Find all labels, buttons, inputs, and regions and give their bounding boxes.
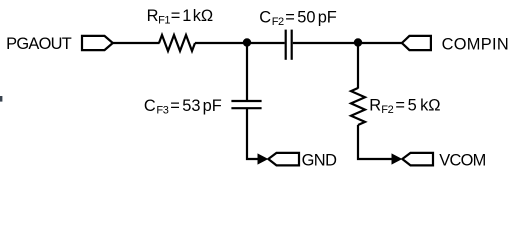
svg-text:1: 1 bbox=[182, 7, 191, 25]
svg-text:C: C bbox=[144, 97, 156, 115]
label R_F1 = 1 kOhm bbox=[147, 7, 214, 27]
svg-text:5: 5 bbox=[408, 97, 417, 115]
svg-text:kΩ: kΩ bbox=[420, 97, 440, 115]
wire R_F1 to C_F2 bbox=[195, 42, 285, 44]
svg-text:=: = bbox=[170, 97, 180, 115]
svg-text:COMPIN: COMPIN bbox=[442, 36, 509, 54]
svg-text:F2: F2 bbox=[381, 104, 393, 116]
wire C_F3 to GND corner bbox=[247, 109, 258, 159]
svg-text:=: = bbox=[395, 97, 405, 115]
label R_F2 = 5 kOhm bbox=[369, 97, 440, 117]
terminal COMPIN bbox=[402, 36, 431, 50]
arrow into GND bbox=[258, 153, 269, 164]
svg-text:R: R bbox=[369, 97, 381, 115]
capacitor C_F2 bbox=[286, 30, 292, 60]
node A junction dot bbox=[243, 38, 251, 46]
svg-text:50: 50 bbox=[297, 9, 315, 27]
svg-text:F2: F2 bbox=[272, 16, 284, 28]
svg-text:PGAOUT: PGAOUT bbox=[6, 35, 72, 53]
capacitor C_F3 bbox=[231, 101, 261, 108]
svg-text:53: 53 bbox=[182, 97, 200, 115]
terminal VCOM bbox=[402, 153, 433, 166]
svg-text:pF: pF bbox=[203, 97, 222, 115]
svg-text:F3: F3 bbox=[156, 105, 168, 117]
arrow into VCOM bbox=[392, 153, 403, 164]
left-edge tick artifact bbox=[0, 96, 2, 102]
terminal PGAOUT bbox=[82, 36, 113, 50]
wire PGAOUT to R_F1 bbox=[113, 42, 160, 44]
svg-text:GND: GND bbox=[302, 151, 337, 169]
resistor R_F1 bbox=[159, 35, 195, 51]
terminal GND bbox=[268, 153, 299, 166]
resistor R_F2 bbox=[351, 88, 365, 125]
svg-text:=: = bbox=[285, 9, 295, 27]
wire R_F2 to VCOM corner bbox=[358, 125, 392, 159]
wire C_F2 to COMPIN bbox=[293, 42, 402, 44]
svg-text:F1: F1 bbox=[158, 15, 170, 27]
svg-text:R: R bbox=[147, 7, 159, 25]
svg-text:kΩ: kΩ bbox=[193, 7, 213, 25]
node B junction dot bbox=[354, 38, 362, 46]
wire node B down to R_F2 bbox=[357, 43, 359, 89]
svg-text:C: C bbox=[259, 9, 271, 27]
wire node A down to C_F3 bbox=[246, 43, 248, 100]
label C_F2 = 50 pF bbox=[259, 9, 337, 29]
svg-text:pF: pF bbox=[318, 9, 337, 27]
svg-text:=: = bbox=[171, 7, 181, 25]
label C_F3 = 53 pF bbox=[144, 97, 222, 117]
svg-text:VCOM: VCOM bbox=[439, 151, 485, 169]
